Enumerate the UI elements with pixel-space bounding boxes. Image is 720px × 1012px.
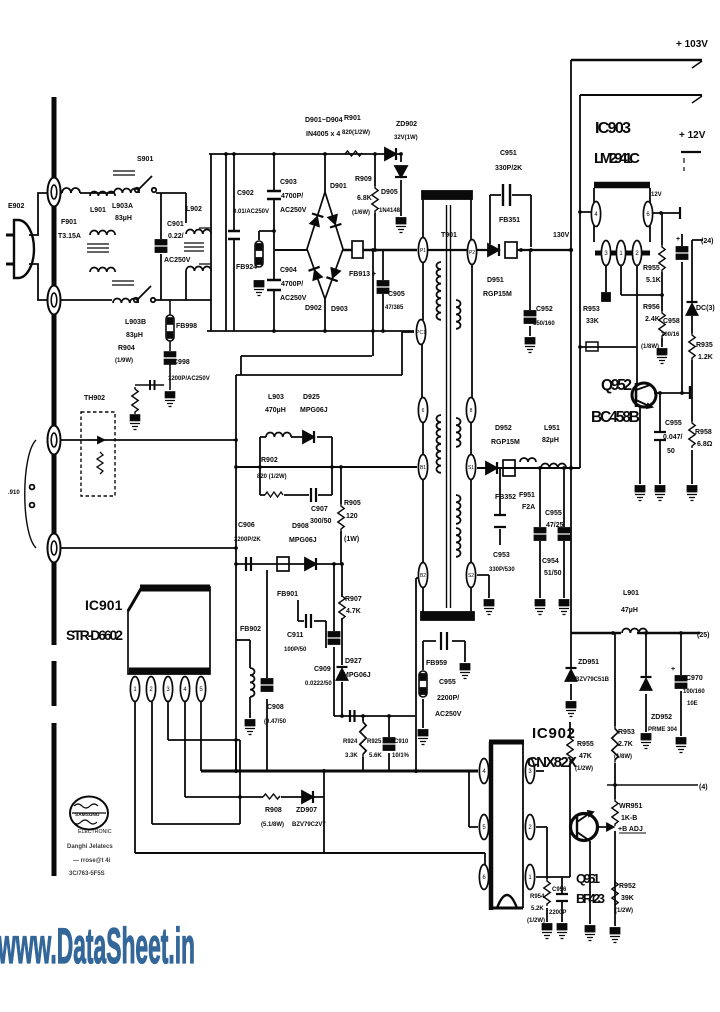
svg-text:1.2K: 1.2K	[698, 354, 713, 361]
svg-text:1K-B: 1K-B	[621, 815, 637, 822]
svg-text:BZV79C51B: BZV79C51B	[575, 677, 610, 683]
svg-text:C955: C955	[439, 679, 456, 686]
svg-text:D901: D901	[330, 183, 347, 190]
svg-text:R935: R935	[696, 342, 713, 349]
svg-text:L903: L903	[268, 394, 284, 401]
svg-text:+: +	[671, 666, 675, 673]
svg-text:2200P: 2200P	[549, 910, 566, 916]
svg-text:+: +	[676, 236, 680, 243]
svg-text:0.0222/50: 0.0222/50	[305, 681, 332, 687]
svg-text:AC250V: AC250V	[164, 257, 191, 264]
svg-text:R952: R952	[619, 883, 636, 890]
svg-text:C908: C908	[267, 704, 284, 711]
svg-text:6: 6	[422, 408, 425, 414]
svg-text:FB351: FB351	[499, 217, 520, 224]
svg-text:R905: R905	[344, 500, 361, 507]
svg-text:— rrose@t 4i: — rrose@t 4i	[73, 858, 111, 864]
svg-text:820(1/2W): 820(1/2W)	[342, 130, 370, 136]
svg-text:2.7K: 2.7K	[618, 741, 633, 748]
svg-text:5.1K: 5.1K	[646, 277, 661, 284]
svg-text:D925: D925	[303, 394, 320, 401]
svg-text:STR-D6602: STR-D6602	[66, 627, 123, 643]
svg-text:(25): (25)	[697, 632, 709, 639]
svg-text:F951: F951	[519, 492, 535, 499]
svg-text:C952: C952	[536, 306, 553, 313]
svg-text:130V: 130V	[553, 232, 570, 239]
svg-text:FB913: FB913	[349, 271, 370, 278]
svg-text:C954: C954	[542, 558, 559, 565]
svg-text:C901: C901	[167, 221, 184, 228]
svg-text:C907: C907	[311, 506, 328, 513]
svg-text:FB924: FB924	[236, 264, 257, 271]
svg-text:C906: C906	[238, 522, 255, 529]
svg-text:(24): (24)	[701, 238, 713, 245]
svg-text:FB998: FB998	[176, 323, 197, 330]
svg-text:32V(1W): 32V(1W)	[394, 135, 418, 141]
svg-text:ZD952: ZD952	[651, 714, 672, 721]
svg-text:T901: T901	[441, 232, 457, 239]
svg-text:FB352: FB352	[495, 494, 516, 501]
svg-text:1200P/AC250V: 1200P/AC250V	[168, 376, 210, 382]
svg-text:C904: C904	[280, 267, 297, 274]
svg-text:1N4148: 1N4148	[379, 208, 401, 214]
svg-text:330P/530: 330P/530	[489, 567, 515, 573]
svg-text:R955: R955	[643, 265, 660, 272]
svg-text:FB902: FB902	[240, 626, 261, 633]
svg-text:820 (1/2W): 820 (1/2W)	[257, 474, 287, 480]
svg-text:4700P/: 4700P/	[281, 193, 303, 200]
svg-text:(1/9W): (1/9W)	[115, 358, 133, 364]
svg-text:R925: R925	[367, 739, 382, 745]
svg-text:R901: R901	[344, 115, 361, 122]
svg-text:C911: C911	[287, 632, 303, 639]
svg-text:D901~D904: D901~D904	[305, 117, 343, 124]
svg-text:(1/6W): (1/6W)	[352, 210, 370, 216]
svg-text:C903: C903	[280, 179, 297, 186]
svg-text:.910: .910	[8, 490, 20, 496]
svg-text:C958: C958	[663, 318, 680, 325]
svg-text:R953: R953	[583, 306, 600, 313]
svg-text:D905: D905	[381, 189, 398, 196]
svg-text:2200P/: 2200P/	[437, 695, 459, 702]
svg-text:(1W): (1W)	[344, 536, 359, 543]
svg-text:R908: R908	[265, 807, 282, 814]
svg-text:C955: C955	[665, 420, 682, 427]
svg-text:T3.15A: T3.15A	[58, 233, 81, 240]
svg-text:R909: R909	[355, 176, 372, 183]
svg-text:FB959: FB959	[426, 660, 447, 667]
svg-text:L951: L951	[544, 425, 560, 432]
svg-text:C909: C909	[314, 666, 331, 673]
svg-text:C970: C970	[686, 675, 703, 682]
svg-text:+: +	[372, 271, 376, 278]
svg-text:AC250V: AC250V	[435, 711, 462, 718]
svg-text:RGP15M: RGP15M	[491, 439, 520, 446]
svg-text:IC902: IC902	[532, 725, 575, 742]
svg-text:B1: B1	[420, 465, 426, 471]
svg-text:C910: C910	[394, 739, 409, 745]
svg-text:R953: R953	[618, 729, 635, 736]
svg-text:R907: R907	[345, 596, 362, 603]
svg-text:12V: 12V	[651, 192, 662, 198]
svg-text:C951: C951	[500, 150, 517, 157]
svg-text:4.7K: 4.7K	[346, 608, 361, 615]
svg-text:L902: L902	[186, 206, 202, 213]
svg-text:BC458B: BC458B	[591, 409, 640, 426]
svg-text:IN4005 x 4: IN4005 x 4	[306, 131, 340, 138]
svg-text:33K: 33K	[586, 318, 599, 325]
svg-text:PC1: PC1	[416, 330, 426, 336]
svg-text:300/50: 300/50	[310, 518, 332, 525]
svg-text:+B ADJ: +B ADJ	[618, 826, 643, 833]
svg-text:0.01/AC250V: 0.01/AC250V	[233, 209, 269, 215]
svg-text:83µH: 83µH	[115, 215, 132, 222]
svg-text:4700P/: 4700P/	[281, 281, 303, 288]
svg-text:(4): (4)	[699, 784, 708, 791]
svg-text:470µH: 470µH	[265, 407, 286, 414]
svg-text:MPG06J: MPG06J	[300, 407, 328, 414]
svg-text:83µH: 83µH	[126, 332, 143, 339]
svg-text:47/385: 47/385	[385, 305, 404, 311]
svg-text:C998: C998	[173, 359, 190, 366]
svg-text:0.22/: 0.22/	[168, 233, 184, 240]
svg-text:(0.47/50: (0.47/50	[264, 719, 287, 725]
svg-text:ZD902: ZD902	[396, 121, 417, 128]
svg-text:C902: C902	[237, 190, 254, 197]
svg-text:WR951: WR951	[619, 803, 642, 810]
svg-text:CNX82X: CNX82X	[527, 754, 577, 771]
svg-text:3.3K: 3.3K	[345, 753, 358, 759]
svg-text:(1/2W): (1/2W)	[615, 908, 633, 914]
svg-text:R956: R956	[643, 304, 660, 311]
svg-text:S2: S2	[468, 573, 474, 579]
svg-text:5.2K: 5.2K	[531, 906, 544, 912]
svg-text:(1/2W): (1/2W)	[575, 766, 593, 772]
svg-text:LM2941C: LM2941C	[594, 150, 640, 167]
svg-text:51/50: 51/50	[544, 570, 562, 577]
svg-text:F2A: F2A	[522, 504, 535, 511]
svg-text:BZV79C2V7: BZV79C2V7	[292, 822, 326, 828]
svg-text:R904: R904	[118, 345, 135, 352]
svg-text:MPG06J: MPG06J	[343, 672, 371, 679]
svg-text:100/16: 100/16	[661, 332, 680, 338]
svg-text:6.8K: 6.8K	[357, 195, 372, 202]
svg-text:(1/8W): (1/8W)	[614, 754, 632, 760]
svg-text:R955: R955	[577, 741, 594, 748]
svg-text:www.DataSheet.in: www.DataSheet.in	[0, 918, 195, 974]
svg-text:R958: R958	[695, 429, 712, 436]
svg-text:ZD951: ZD951	[578, 659, 599, 666]
svg-text:IC903: IC903	[595, 120, 631, 137]
svg-text:0.047/: 0.047/	[663, 434, 683, 441]
svg-text:P1: P1	[420, 248, 426, 254]
svg-text:D908: D908	[292, 523, 309, 530]
svg-text:10E: 10E	[687, 701, 698, 707]
svg-text:50: 50	[667, 448, 675, 455]
svg-text:C955: C955	[545, 510, 562, 517]
svg-text:PRME 304: PRME 304	[648, 727, 678, 733]
svg-text:100/160: 100/160	[683, 689, 705, 695]
svg-text:D902: D902	[305, 305, 322, 312]
svg-text:(1/2W): (1/2W)	[527, 918, 545, 924]
svg-text:8: 8	[470, 408, 473, 414]
svg-text:2.4K: 2.4K	[645, 316, 660, 323]
svg-text:R954: R954	[530, 894, 545, 900]
svg-text:120: 120	[346, 513, 358, 520]
svg-text:2200P/2K: 2200P/2K	[234, 537, 261, 543]
svg-text:BF423: BF423	[576, 891, 605, 906]
svg-text:TH902: TH902	[84, 395, 105, 402]
svg-text:39K: 39K	[621, 895, 634, 902]
svg-text:Danghi Jelatecs: Danghi Jelatecs	[67, 844, 113, 850]
svg-text:C905: C905	[388, 291, 405, 298]
svg-text:6.8Ω: 6.8Ω	[697, 441, 713, 448]
svg-text:D952: D952	[495, 425, 512, 432]
svg-text:3C/763-5F5S: 3C/763-5F5S	[69, 871, 105, 877]
svg-text:10/1%: 10/1%	[392, 753, 410, 759]
svg-text:150/160: 150/160	[533, 321, 555, 327]
svg-text:D903: D903	[331, 306, 348, 313]
svg-text:L903A: L903A	[112, 203, 133, 210]
svg-text:AC250V: AC250V	[280, 295, 307, 302]
svg-text:IC901: IC901	[85, 597, 123, 613]
svg-text:ZD907: ZD907	[296, 807, 317, 814]
svg-text:DC(3): DC(3)	[696, 305, 715, 312]
svg-text:P2: P2	[469, 250, 475, 256]
svg-text:F901: F901	[61, 219, 77, 226]
svg-text:S901: S901	[137, 156, 153, 163]
svg-text:FB901: FB901	[277, 591, 298, 598]
svg-text:82µH: 82µH	[542, 437, 559, 444]
svg-text:R902: R902	[261, 457, 278, 464]
svg-text:L903B: L903B	[125, 319, 146, 326]
svg-text:Q951: Q951	[576, 871, 600, 886]
svg-text:5.6K: 5.6K	[369, 753, 382, 759]
svg-text:Q952: Q952	[601, 377, 632, 394]
svg-text:C953: C953	[493, 552, 510, 559]
svg-text:D951: D951	[487, 277, 504, 284]
svg-text:R924: R924	[343, 739, 358, 745]
svg-text:(1/8W): (1/8W)	[641, 344, 659, 350]
svg-text:100P/50: 100P/50	[284, 647, 307, 653]
svg-text:ELECTRONIC: ELECTRONIC	[78, 829, 112, 835]
svg-text:B2: B2	[420, 573, 426, 579]
svg-text:330P/2K: 330P/2K	[495, 165, 522, 172]
svg-text:S1: S1	[468, 465, 474, 471]
svg-text:D927: D927	[345, 658, 362, 665]
svg-text:E902: E902	[8, 203, 24, 210]
svg-text:(5.1/8W): (5.1/8W)	[261, 822, 284, 828]
svg-text:AC250V: AC250V	[280, 207, 307, 214]
svg-text:47µH: 47µH	[621, 607, 638, 614]
svg-text:47/25: 47/25	[546, 522, 564, 529]
svg-text:+ 12V: + 12V	[679, 130, 706, 141]
svg-text:47K: 47K	[579, 753, 592, 760]
svg-text:+ 103V: + 103V	[676, 39, 708, 50]
svg-text:C956: C956	[552, 887, 567, 893]
svg-text:RGP15M: RGP15M	[483, 291, 512, 298]
svg-text:L901: L901	[623, 590, 639, 597]
svg-text:MPG06J: MPG06J	[289, 537, 317, 544]
svg-text:L901: L901	[90, 207, 106, 214]
